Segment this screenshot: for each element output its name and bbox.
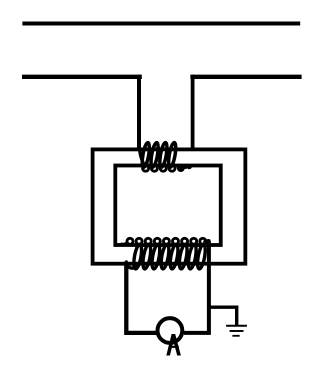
wire: ground branch stub — [207, 307, 237, 325]
transformer core inner rectangle — [115, 166, 220, 246]
secondary winding L2 (bottom coil) — [122, 238, 209, 269]
transformer core outer rectangle — [93, 149, 246, 263]
wire: second bus line, right segment — [190, 75, 301, 79]
ground symbol — [226, 325, 247, 327]
wire: top bus line — [22, 21, 300, 25]
wire: secondary left lead down to ammeter — [126, 263, 158, 333]
ammeter label A — [166, 334, 181, 356]
primary winding L1 (top coil) — [139, 142, 192, 172]
wire: secondary right lead down — [184, 241, 209, 333]
wire: right drop to primary — [191, 75, 195, 149]
wire: left drop to primary — [137, 75, 141, 149]
wire: second bus line, left segment — [22, 75, 142, 79]
ammeter A1 circle — [158, 318, 183, 343]
